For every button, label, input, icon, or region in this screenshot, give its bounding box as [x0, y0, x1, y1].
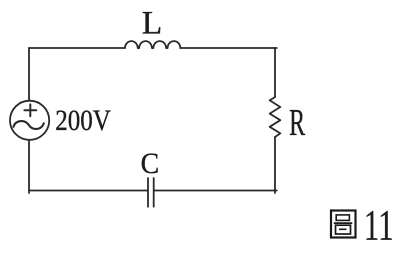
wire top segment left (corner to inductor) — [29, 47, 125, 49]
wire left vertical top (source top to top-left corner) — [28, 48, 30, 100]
AC source V1 plus polarity mark — [24, 104, 36, 116]
wire bottom segment left (capacitor to bottom-left corner) — [29, 190, 148, 192]
wire bottom segment right (corner to capacitor) — [154, 190, 277, 192]
svg-text:L: L — [142, 5, 162, 42]
wire right vertical top (corner to resistor) — [274, 48, 276, 97]
inductor L1 — [125, 41, 180, 48]
label 200V (source value) — [55, 103, 111, 137]
figure caption 圖 (hand drawn glyph) — [331, 211, 356, 238]
svg-text:C: C — [141, 147, 160, 180]
svg-text:11: 11 — [364, 201, 394, 249]
svg-text:200V: 200V — [55, 103, 111, 137]
wire right vertical bottom (resistor to bottom-right corner) — [274, 137, 276, 193]
figure caption number 11 — [364, 201, 394, 249]
resistor R1 — [270, 97, 281, 137]
AC source V1 sine wave — [13, 121, 43, 129]
wire top segment right (inductor to top-right corner) — [180, 47, 276, 49]
label L (inductor value) — [142, 5, 162, 42]
AC source V1 circle — [10, 101, 49, 140]
capacitor C1 — [148, 178, 154, 207]
label C (capacitor value) — [141, 147, 160, 180]
svg-text:R: R — [289, 101, 305, 143]
wire left vertical bottom (bottom-left corner to source bottom) — [28, 141, 30, 193]
label R (resistor value) — [289, 101, 305, 143]
